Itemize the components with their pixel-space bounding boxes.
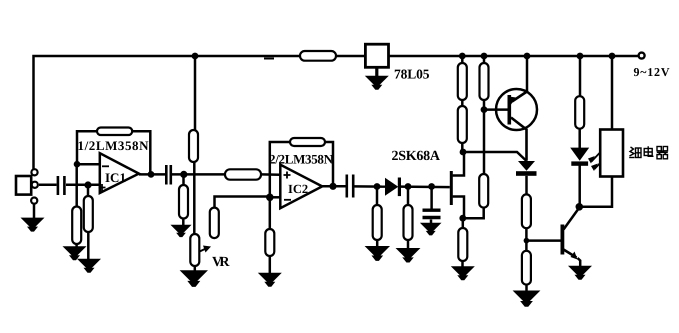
svg-text:2/2LM358N: 2/2LM358N — [269, 152, 334, 167]
svg-text:IC1: IC1 — [105, 170, 126, 185]
svg-text:VR: VR — [212, 255, 230, 270]
svg-text:2SK68A: 2SK68A — [392, 149, 441, 164]
svg-text:9~12V: 9~12V — [634, 65, 670, 79]
svg-text:1/2LM358N: 1/2LM358N — [78, 138, 150, 153]
svg-text:IC2: IC2 — [288, 182, 308, 196]
svg-text:78L05: 78L05 — [394, 67, 430, 82]
